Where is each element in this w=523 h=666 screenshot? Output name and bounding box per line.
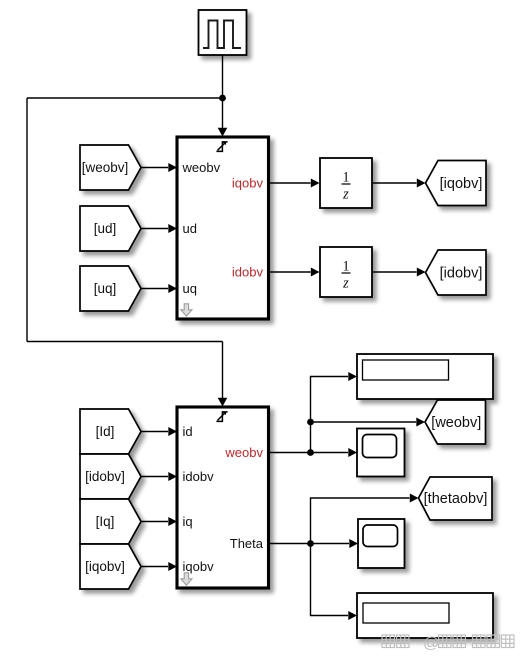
wire From[iqobv] to U2 xyxy=(141,566,168,568)
gray subsystem badge U1 xyxy=(181,304,192,316)
wire From[weobv] to U1 xyxy=(141,167,168,169)
svg-text:[weobv]: [weobv] xyxy=(431,415,481,431)
wire: pulse generator output down to trigger of subsystem U1 xyxy=(222,56,224,129)
svg-text:z: z xyxy=(342,187,349,203)
wire branch up to Goto [thetaobv] xyxy=(311,498,410,544)
svg-text:[ud]: [ud] xyxy=(94,221,117,236)
svg-text:[iqobv]: [iqobv] xyxy=(85,559,125,574)
svg-text:[iqobv]: [iqobv] xyxy=(440,176,483,192)
wire U2.Theta to scope S2 xyxy=(269,543,350,545)
Goto tag [weobv] xyxy=(425,400,486,444)
svg-text:weobv: weobv xyxy=(224,445,263,460)
arrowhead into U1 trigger xyxy=(218,128,228,137)
display D1 xyxy=(357,354,493,399)
From tag [Iq] xyxy=(80,499,141,544)
svg-text:[Id]: [Id] xyxy=(96,424,115,439)
svg-text:Theta: Theta xyxy=(230,536,264,551)
subsystem U2 (speed/position observer) xyxy=(177,407,269,588)
svg-text:@: @ xyxy=(423,635,439,652)
svg-text:idobv: idobv xyxy=(183,469,215,484)
From tag [uq] xyxy=(80,266,141,311)
scope S1 xyxy=(357,429,405,477)
wire branch to Goto [weobv] xyxy=(311,421,417,423)
From tag [Id] xyxy=(80,409,141,454)
From tag [idobv] xyxy=(80,454,141,499)
Goto tag [iqobv] xyxy=(426,161,487,206)
svg-text:1: 1 xyxy=(342,259,349,275)
svg-text:id: id xyxy=(183,424,193,439)
svg-text:[thetaobv]: [thetaobv] xyxy=(424,491,488,507)
wire Z1 to Goto [iqobv] xyxy=(372,182,417,184)
svg-text:[idobv]: [idobv] xyxy=(85,469,125,484)
svg-text:idobv: idobv xyxy=(232,265,264,280)
wire: bottom horizontal run to subsystem U2 trigger xyxy=(27,341,223,343)
svg-text:[weobv]: [weobv] xyxy=(82,160,129,175)
junction dot on trigger wire xyxy=(219,95,226,102)
trigger icon U2 xyxy=(216,412,227,422)
svg-text:[Iq]: [Iq] xyxy=(96,514,115,529)
svg-text:[idobv]: [idobv] xyxy=(440,266,483,282)
wire From[Iq] to U2 xyxy=(141,521,168,523)
junction dot weobv branch 1 xyxy=(307,419,314,426)
wire branch down to display D2 xyxy=(311,544,349,616)
svg-text:ud: ud xyxy=(183,221,197,236)
wire From[idobv] to U2 xyxy=(141,476,168,478)
arrowhead into U2 trigger xyxy=(218,398,228,407)
subsystem U1 (observer voltage model) xyxy=(177,137,269,319)
pulse generator block xyxy=(199,10,247,55)
wire: left vertical run xyxy=(26,98,28,342)
svg-text:z: z xyxy=(342,276,349,292)
svg-text:weobv: weobv xyxy=(182,160,221,175)
svg-text:uq: uq xyxy=(183,281,197,296)
From tag [weobv] xyxy=(80,145,141,190)
display D2 xyxy=(357,593,493,638)
gray subsystem badge U2 xyxy=(181,573,192,585)
wire From[uq] to U1 xyxy=(141,288,168,290)
wire From[ud] to U1 xyxy=(141,228,168,230)
unit delay Z2 (1/z) xyxy=(320,247,372,297)
junction dot weobv branch 2 xyxy=(307,449,314,456)
wire From[Id] to U2 xyxy=(141,431,168,433)
wire branch up to display D1 xyxy=(311,377,349,453)
wire U1.iqobv to unit delay Z1 xyxy=(269,182,311,184)
wire: branch left from junction xyxy=(27,97,223,99)
Goto tag [thetaobv] xyxy=(419,477,493,520)
svg-text:iqobv: iqobv xyxy=(183,559,215,574)
unit delay Z1 (1/z) xyxy=(320,158,372,208)
svg-text:iq: iq xyxy=(183,514,193,529)
wire U2.weobv to scope S1 xyxy=(269,452,349,454)
trigger icon U1 xyxy=(216,142,227,152)
watermark "知乎 @伽蓝 伽利略" (grey pseudo-glyph strokes) xyxy=(382,635,514,652)
wire U1.idobv to unit delay Z2 xyxy=(269,271,311,273)
svg-text:1: 1 xyxy=(342,170,349,186)
svg-text:[uq]: [uq] xyxy=(94,281,117,296)
scope S2 xyxy=(358,519,405,568)
wire: vertical down into U2 trigger xyxy=(222,342,224,399)
From tag [ud] xyxy=(80,206,141,251)
From tag [iqobv] lower xyxy=(80,544,141,589)
Goto tag [idobv] xyxy=(426,250,487,295)
junction dot Theta branch xyxy=(307,540,314,547)
wire Z2 to Goto [idobv] xyxy=(372,271,417,273)
svg-text:iqobv: iqobv xyxy=(232,176,264,191)
